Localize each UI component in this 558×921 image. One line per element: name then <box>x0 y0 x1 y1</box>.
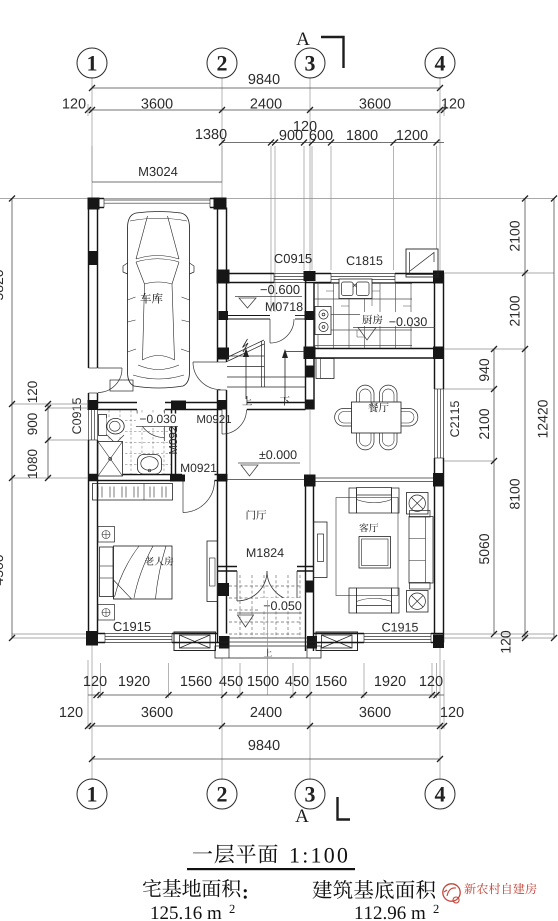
kitchen stove <box>315 307 331 335</box>
window C0915 north <box>274 276 306 278</box>
bed corner fold <box>114 580 132 599</box>
south wall bedroom segment <box>89 633 106 635</box>
sofa bottom (2-seat) <box>349 588 357 613</box>
car roof/cabin <box>136 259 179 262</box>
sofa top (2-seat) <box>349 488 357 513</box>
elevation -0.050 <box>260 598 304 611</box>
planter right <box>316 632 358 651</box>
axis3 wall <box>305 273 307 410</box>
grid line axis 1 <box>91 77 93 198</box>
上 下 labels <box>242 396 252 405</box>
label 建筑基底面积 <box>313 880 332 899</box>
door label M3024 <box>139 167 177 176</box>
label 客厅 <box>359 523 368 532</box>
grid bubble 1 bottom <box>77 779 107 809</box>
grid bubble 3 bottom <box>295 779 325 809</box>
car in garage <box>128 212 190 389</box>
grid line axis 4 <box>439 77 441 273</box>
bath dashed floor tiles <box>108 410 110 474</box>
bottom dim row C 9840 <box>92 758 440 760</box>
extension line top wall level <box>0 198 554 200</box>
label C0915 north <box>275 254 312 263</box>
right rail R1 <box>493 349 495 634</box>
grid bubble 2 bottom <box>207 779 237 809</box>
side table bottom-right <box>407 591 429 613</box>
garage north wall <box>88 198 104 200</box>
left rail extension lines <box>12 403 88 405</box>
title 一层平面 1:100 <box>193 851 212 853</box>
kitchen floor tiles <box>317 283 319 348</box>
elevation -0.600 <box>261 285 300 294</box>
wardrobe <box>93 484 173 501</box>
hall south wall (bath top) <box>89 402 138 404</box>
dining chair right <box>401 409 418 427</box>
kitchen flue box <box>406 249 438 277</box>
tv cabinet living <box>314 522 328 578</box>
label 门厅 <box>247 510 256 520</box>
window C1915 south-left <box>105 636 172 638</box>
bath south wall <box>89 474 183 476</box>
elevation ±0.000 <box>259 450 296 459</box>
grid line axis 2 <box>221 77 223 198</box>
door M0921 bath (north wall) leaf+arc <box>164 410 166 442</box>
dining chairs top <box>357 385 375 402</box>
grid bubble 2 top <box>207 48 237 78</box>
bottom dim row A <box>88 694 444 696</box>
bed headboard <box>100 547 114 597</box>
door M0921 bedroom <box>182 476 184 513</box>
west wall <box>88 199 90 369</box>
section mark A bottom <box>295 809 308 822</box>
area 112.96 m2 <box>356 906 426 919</box>
logo icon <box>443 884 460 901</box>
shower <box>98 442 123 477</box>
kitchen south wall <box>306 348 444 350</box>
label C2115 rotated <box>450 401 459 437</box>
garage east door leaf+arc <box>193 361 218 363</box>
dining chairs bottom <box>357 433 375 450</box>
car rear window <box>136 216 179 259</box>
label C1915 right <box>382 623 418 632</box>
dining/living beam <box>314 477 435 479</box>
left main rail <box>11 198 13 638</box>
grid bubble 3 top <box>295 48 325 78</box>
label M1824 <box>247 548 284 557</box>
grid bubble 4 top <box>425 48 455 78</box>
bed mattress <box>114 546 173 599</box>
label 老人房 <box>145 557 154 566</box>
planter left <box>174 632 216 651</box>
dim line 1380/120/900/600/1800/1200 <box>222 142 444 144</box>
label C0915 west rotated <box>72 398 81 434</box>
window C1915 south-right <box>364 636 431 638</box>
toilet <box>99 415 107 436</box>
stair up arrow <box>245 352 247 399</box>
stair divider <box>261 341 263 387</box>
north main wall <box>218 273 275 275</box>
stair down arrow <box>284 352 286 400</box>
dining cabinet <box>316 359 334 379</box>
kitchen sink <box>339 279 372 299</box>
window C2115 east <box>437 389 439 458</box>
dining table <box>352 402 402 433</box>
door M0921 hall <box>221 410 223 435</box>
entry wall M1824 <box>218 566 238 568</box>
bottom ext verticals <box>100 663 102 698</box>
stair break line <box>227 340 264 358</box>
door M0718 leaf+arc <box>269 319 271 343</box>
coffee table <box>359 537 391 569</box>
columns (black) <box>88 198 100 210</box>
label 餐厅 <box>368 403 378 413</box>
bath east wall <box>171 410 173 475</box>
label C1915 left <box>114 622 151 631</box>
sofa right (3-seat) <box>409 517 433 584</box>
west window C0915 <box>88 408 90 440</box>
right rail R3 (12420) <box>553 198 555 638</box>
label M0921 vertical <box>169 420 177 454</box>
grid line axis 3 <box>309 77 311 273</box>
car mirrors <box>123 263 128 274</box>
nightstand bottom <box>98 605 115 621</box>
dim line 120/3600/2400/3600/120 top <box>88 109 444 111</box>
hall beam line <box>227 479 304 481</box>
washbasin <box>138 455 162 475</box>
stair treads <box>227 355 264 357</box>
label C1815 <box>347 256 383 265</box>
label 宅基地面积: <box>143 879 161 897</box>
label 厨房 -0.030 <box>360 312 422 326</box>
dim line 9840 top <box>92 87 440 89</box>
porch wall M0718 <box>227 315 271 317</box>
garage step box <box>110 380 133 391</box>
label M0921 bedroom <box>181 464 216 472</box>
label M0718 <box>266 302 303 311</box>
grid bubble 1 top <box>77 48 107 78</box>
east wall <box>443 274 445 390</box>
entry steps <box>229 637 307 639</box>
right rail R2 <box>524 198 526 638</box>
left sub rail <box>47 404 49 478</box>
garage side door west leaf+arc <box>98 367 122 369</box>
side table top-right <box>407 493 429 515</box>
porch tile grid dashed <box>239 575 241 638</box>
car front arcs <box>138 365 179 370</box>
bottom dim row B <box>88 725 444 727</box>
room label 车库 <box>140 293 151 304</box>
axis2 wall <box>217 199 219 363</box>
door M1824 double leaves <box>236 571 238 601</box>
section mark A top <box>296 32 309 45</box>
label M0921 hall <box>197 415 231 423</box>
car door ticks <box>128 297 190 352</box>
step center line <box>267 600 269 695</box>
window C1815 north <box>331 276 395 278</box>
garage door M3024 lines <box>104 199 210 201</box>
logo text 新农村自建房 <box>464 883 475 894</box>
dining chair left <box>335 409 352 427</box>
right rail extension lines <box>444 272 554 274</box>
area 125.16 m2 <box>152 906 222 919</box>
elevation -0.030 bath <box>136 414 180 427</box>
south wall living segment <box>314 633 365 635</box>
living rug outline <box>336 498 398 596</box>
bedroom tv cabinet <box>207 541 218 602</box>
nightstand top <box>98 527 115 543</box>
grid bubble 4 bottom <box>425 779 455 809</box>
